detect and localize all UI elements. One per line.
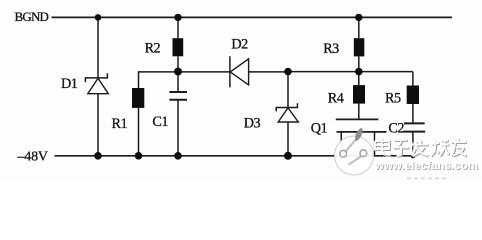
label D2 (231, 37, 248, 53)
label C1 (152, 114, 168, 130)
wire: Q1 right lead to -48V rail (374, 132, 376, 156)
resistor R3 (354, 38, 365, 56)
resistor R5 (407, 86, 419, 105)
junction: node C (R3/R4/R5) (355, 68, 363, 76)
svg-text:D1: D1 (61, 76, 78, 92)
junction: node A (R2/R1/C1/D2) (174, 68, 182, 76)
label D1 (61, 76, 78, 92)
capacitor C2 (403, 123, 425, 131)
label D3 (244, 116, 261, 132)
label C2 (388, 120, 404, 136)
svg-text:D2: D2 (231, 37, 248, 53)
junction: node B (D2/D3) (284, 68, 292, 76)
diode D3 (zener) (276, 103, 298, 122)
wire: D3 branch vertical (287, 72, 289, 156)
junction: bottom rail / R1 (135, 152, 143, 160)
diode D1 (zener) (85, 73, 108, 93)
wire: R1 branch (horizontal from node A, vertical down) (139, 72, 179, 156)
svg-text:R5: R5 (385, 90, 401, 106)
wire: R3 branch vertical (358, 17, 360, 71)
wire: bottom rail -48V (55, 155, 417, 157)
wire: R2 branch vertical (177, 17, 179, 71)
svg-text:www.elecfans.com: www.elecfans.com (374, 160, 478, 172)
label R3 (323, 41, 339, 57)
svg-text:C1: C1 (152, 114, 168, 130)
resistor R1 (132, 88, 144, 108)
wire: node A to D2 cathode (178, 71, 230, 73)
junction: top rail / R2 (174, 14, 181, 21)
diode D2 (230, 56, 249, 87)
svg-text:C2: C2 (388, 120, 404, 136)
net label BGND (15, 9, 49, 24)
label Q1 (311, 121, 328, 137)
junction: bottom rail / D3 (284, 152, 292, 160)
junction: bottom rail / C1 (174, 152, 182, 160)
label R4 (328, 90, 344, 106)
wire: top rail BGND (52, 16, 453, 18)
svg-text:BGND: BGND (15, 9, 49, 24)
resistor R4 (353, 85, 365, 104)
watermark (site logo and text overlay) (335, 128, 480, 179)
svg-text:R1: R1 (112, 116, 128, 132)
svg-text:R2: R2 (145, 41, 161, 57)
junction: top rail / D1 (95, 14, 102, 21)
svg-text:–48V: –48V (17, 149, 48, 164)
junction: top rail / R3 (355, 14, 362, 21)
label R5 (385, 90, 401, 106)
wire: D1 branch vertical (97, 17, 99, 155)
label R1 (112, 116, 128, 132)
junction: bottom rail / C2 (410, 153, 415, 158)
wire: C1 branch vertical (177, 72, 179, 156)
transistor Q1 (336, 119, 387, 131)
wire: R5 branch vertical (412, 72, 414, 156)
wire: Q1 left lead to -48V rail (340, 132, 342, 156)
svg-text:R4: R4 (328, 90, 344, 106)
svg-text:R3: R3 (323, 41, 339, 57)
capacitor C1 (169, 92, 187, 100)
wire: D2 anode to node B and across to R5 branch (249, 71, 413, 73)
label R2 (145, 41, 161, 57)
resistor R2 (173, 38, 184, 56)
svg-text:Q1: Q1 (311, 121, 328, 137)
junction: bottom rail / D1 (94, 152, 102, 160)
svg-text:D3: D3 (244, 116, 261, 132)
net label -48V (17, 149, 48, 164)
wire: R4 branch vertical (358, 72, 360, 120)
